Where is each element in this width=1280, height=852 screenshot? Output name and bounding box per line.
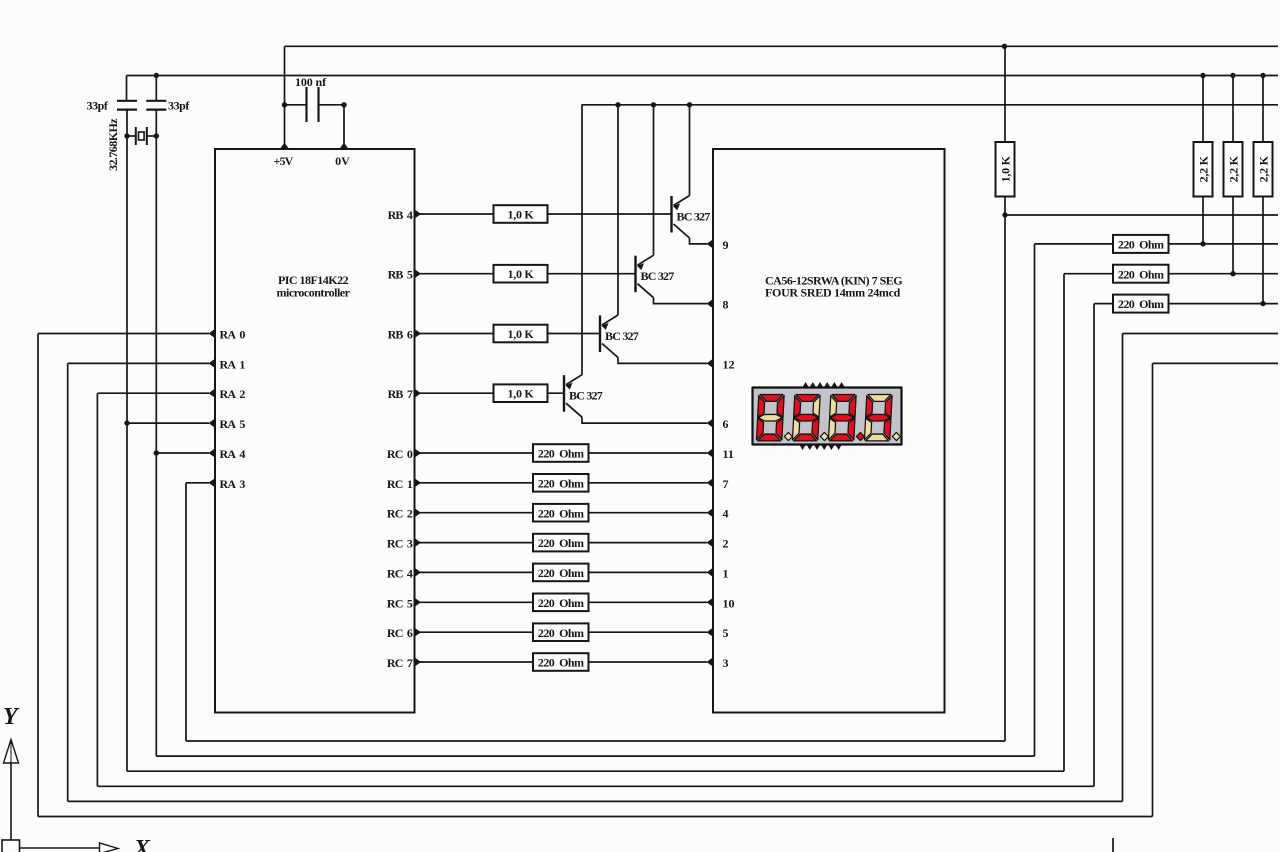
wire left vertical x=186.0 (185, 483, 187, 741)
wire R2 to Q2 base (548, 273, 636, 275)
wire row4 to right edge (1123, 333, 1279, 335)
svg-text:10: 10 (723, 596, 735, 610)
capacitor C1 33pf (117, 101, 137, 110)
svg-text:8: 8 (723, 298, 729, 312)
capacitor C3 100nf (285, 87, 345, 122)
transistor Q1 BC 327 (672, 196, 690, 239)
pin 2 (707, 538, 714, 547)
svg-text:4: 4 (723, 507, 729, 521)
svg-text:RA 1: RA 1 (220, 357, 246, 371)
svg-text:220 Ohm: 220 Ohm (1118, 297, 1164, 311)
wire Q3 collector to display (618, 358, 707, 364)
svg-text:11: 11 (723, 447, 734, 461)
svg-text:220 Ohm: 220 Ohm (538, 656, 584, 670)
wire row5 to right edge (1153, 362, 1279, 364)
wire bottom bus y=801.4 (68, 800, 1123, 802)
resistor R8 220 Ohm (533, 504, 589, 522)
svg-text:2: 2 (723, 537, 729, 551)
pin 4 (707, 508, 714, 517)
svg-text:RA 4: RA 4 (220, 447, 246, 461)
node axis marker Y (3, 704, 20, 840)
wire R8 to display (589, 512, 708, 514)
wire right vertical x=1122.5 (1122, 334, 1124, 802)
wire R16 to right edge (1169, 303, 1279, 305)
wire R13 to display (589, 661, 708, 663)
resistor R4 1,0 K (494, 384, 548, 402)
pin RC 2 (415, 508, 422, 517)
wire RC2 to R8 (415, 512, 534, 514)
pin 11 (707, 448, 714, 457)
junction R17 bottom (1200, 241, 1205, 246)
transistor Q2 BC 327 (636, 255, 654, 298)
junction Q3 emitter rail (615, 102, 620, 107)
wire emitter rail (582, 104, 1279, 106)
wire 0V drop (343, 105, 345, 149)
junction RA5 crystal line (124, 420, 129, 425)
svg-text:33pf: 33pf (168, 99, 190, 113)
junction R18 rail2 (1230, 73, 1235, 78)
wire left vertical x=97.4 (96, 393, 98, 786)
junction X1 right (154, 133, 159, 138)
svg-text:RB 5: RB 5 (388, 268, 413, 282)
resistor R11 220 Ohm (533, 594, 589, 612)
node DS1 7-segment display graphic (753, 382, 902, 450)
svg-text:1,0 K: 1,0 K (998, 155, 1012, 182)
svg-text:RC 5: RC 5 (387, 596, 413, 610)
wire node row 215 (1005, 214, 1278, 216)
junction R5 bottom (1002, 212, 1007, 217)
resistor R6 220 Ohm (533, 444, 589, 462)
svg-text:X: X (133, 836, 151, 852)
wire R11 to display (589, 601, 708, 603)
wire left vertical RA5 (126, 423, 128, 771)
pin RA 2 (209, 389, 216, 398)
svg-text:RA 3: RA 3 (220, 477, 246, 491)
wire left vertical x=67.7 (67, 363, 69, 801)
svg-text:220 Ohm: 220 Ohm (538, 536, 584, 550)
svg-text:1: 1 (723, 566, 729, 580)
resistor R16 220 Ohm (1113, 295, 1169, 313)
wire to R16 (1094, 303, 1113, 305)
svg-text:1,0 K: 1,0 K (507, 267, 534, 281)
wire right vertical x=1064.0 (1063, 274, 1065, 772)
wire RB5 to R2 (415, 273, 494, 275)
svg-text:RC 1: RC 1 (387, 477, 413, 491)
svg-text:33pf: 33pf (87, 99, 109, 113)
svg-text:BC 327: BC 327 (641, 269, 675, 283)
svg-text:RC 6: RC 6 (387, 626, 413, 640)
pin RC 5 (415, 598, 422, 607)
svg-text:3: 3 (723, 656, 729, 670)
pin RB 4 (415, 209, 422, 218)
wire RA row 5 horizontal (68, 362, 209, 364)
svg-text:Y: Y (3, 704, 20, 730)
svg-text:220 Ohm: 220 Ohm (538, 476, 584, 490)
junction R18 bottom (1230, 271, 1235, 276)
svg-text:RB 7: RB 7 (388, 387, 413, 401)
resistor R13 220 Ohm (533, 653, 589, 671)
resistor R14 220 Ohm (1113, 235, 1169, 253)
wire RA row 7 horizontal (127, 422, 209, 424)
svg-text:2,2 K: 2,2 K (1196, 155, 1210, 182)
svg-text:RB 6: RB 6 (388, 328, 413, 342)
wire +5V rail top (285, 45, 1279, 47)
wire RC0 to R6 (415, 452, 534, 454)
junction C3 left (282, 102, 287, 107)
resistor R2 1,0 K (494, 265, 548, 283)
pin RC 6 (415, 628, 422, 637)
wire R18 bottom lead (1232, 197, 1234, 274)
wire R17 bottom lead (1202, 197, 1204, 244)
svg-text:0V: 0V (335, 154, 350, 168)
node axis marker X arrow (20, 836, 152, 852)
wire bottom tick (1112, 838, 1114, 852)
wire R15 to right edge (1169, 273, 1279, 275)
pin 3 (707, 657, 714, 666)
pin RB 7 (415, 389, 422, 398)
pin 8 (707, 299, 714, 308)
wire RC4 to R10 (415, 571, 534, 573)
junction R19 rail2 (1260, 73, 1265, 78)
wire C2 to RA4 (155, 110, 157, 453)
svg-text:FOUR SRED 14mm 24mcd: FOUR SRED 14mm 24mcd (765, 286, 901, 300)
wire right vertical x=1094.0 (1093, 304, 1095, 787)
svg-text:RC 7: RC 7 (387, 656, 413, 670)
resistor R3 1,0 K (494, 325, 548, 343)
wire RA row 6 horizontal (97, 392, 209, 394)
svg-text:2,2 K: 2,2 K (1256, 155, 1270, 182)
wire R9 to display (589, 542, 708, 544)
node axis marker origin box (2, 840, 20, 852)
wire to R14 (1035, 243, 1114, 245)
wire RC7 to R13 (415, 661, 534, 663)
resistor R1 1,0 K (494, 205, 548, 223)
wire R5 top lead (1004, 46, 1006, 142)
junction X1 left (124, 133, 129, 138)
op-amp U1 PIC 18F14K22 microcontroller box (215, 149, 415, 713)
capacitor C2 33pf (146, 101, 166, 110)
wire R5 bottom lead (1004, 197, 1006, 216)
pin RA 5 (209, 419, 216, 428)
pin 7 (707, 478, 714, 487)
svg-text:220 Ohm: 220 Ohm (1118, 238, 1164, 252)
svg-text:1,0 K: 1,0 K (507, 327, 534, 341)
wire +5V drop (284, 46, 286, 149)
junction C2 rail2 (154, 73, 159, 78)
pin RA 0 (209, 329, 216, 338)
junction Q2 emitter rail (651, 102, 656, 107)
pin 12 (707, 359, 714, 368)
svg-text:RA 5: RA 5 (220, 417, 246, 431)
wire R12 to display (589, 631, 708, 633)
resistor R19 2,2 K vertical (1254, 142, 1273, 197)
svg-text:BC 327: BC 327 (569, 389, 603, 403)
wire C1 top lead (126, 76, 128, 101)
transistor Q3 BC 327 (600, 315, 618, 358)
wire bottom bus y=741.0 (186, 740, 1005, 742)
wire R4 to Q4 base (548, 392, 565, 394)
junction C3 right (341, 102, 346, 107)
pin 1 (707, 568, 714, 577)
svg-text:1,0 K: 1,0 K (507, 208, 534, 222)
op-amp DS1 CA56-12SRWA 7-segment display box (713, 149, 945, 713)
wire right vertical x=1034.5 (1034, 244, 1036, 756)
svg-text:RB 4: RB 4 (388, 208, 413, 222)
svg-text:9: 9 (723, 238, 729, 252)
wire R19 top lead (1262, 76, 1264, 143)
svg-text:6: 6 (723, 417, 729, 431)
pin RB 6 (415, 329, 422, 338)
wire right vertical x=1005.0 (1004, 215, 1006, 741)
wire bottom bus y=816.5 (38, 816, 1153, 818)
wire RC6 to R12 (415, 631, 534, 633)
wire R7 to display (589, 482, 708, 484)
wire RB6 to R3 (415, 333, 494, 335)
pin +5V (280, 143, 289, 150)
wire to R15 (1064, 273, 1113, 275)
junction R5 +5V rail (1002, 44, 1007, 49)
wire Q3 emitter (617, 105, 619, 315)
wire RC5 to R11 (415, 601, 534, 603)
transistor Q4 BC 327 (564, 375, 582, 418)
svg-text:220 Ohm: 220 Ohm (538, 506, 584, 520)
svg-text:RC 2: RC 2 (387, 507, 413, 521)
wire R3 to Q3 base (548, 333, 601, 335)
junction R19 bottom (1260, 301, 1265, 306)
wire C1 to RA5 (126, 110, 128, 424)
wire Q4 emitter (581, 105, 583, 375)
svg-text:2,2 K: 2,2 K (1226, 155, 1240, 182)
pin 10 (707, 598, 714, 607)
wire R19 bottom lead (1262, 197, 1264, 304)
wire bottom bus y=756.1 (156, 755, 1034, 757)
resistor R15 220 Ohm (1113, 265, 1169, 283)
resistor R10 220 Ohm (533, 564, 589, 582)
resistor R5 1,0 K vertical (996, 142, 1015, 197)
wire R17 top lead (1202, 76, 1204, 143)
wire rail2 (crystal/2,2K net) (127, 75, 1279, 77)
pin RC 0 (415, 448, 422, 457)
wire C2 top lead (155, 76, 157, 101)
resistor R12 220 Ohm (533, 623, 589, 641)
pin RC 7 (415, 657, 422, 666)
pin RC 3 (415, 538, 422, 547)
svg-text:220 Ohm: 220 Ohm (538, 626, 584, 640)
resistor R17 2,2 K vertical (1194, 142, 1213, 197)
svg-text:RC 0: RC 0 (387, 447, 413, 461)
svg-text:RA 0: RA 0 (220, 328, 246, 342)
svg-text:BC 327: BC 327 (677, 210, 711, 224)
crystal X1 32.768KHz (127, 127, 156, 145)
svg-text:220 Ohm: 220 Ohm (1118, 267, 1164, 281)
resistor R9 220 Ohm (533, 534, 589, 552)
pin RA 1 (209, 359, 216, 368)
wire R14 to right edge (1169, 243, 1279, 245)
wire RC3 to R9 (415, 542, 534, 544)
wire RA row 8 horizontal (156, 452, 209, 454)
wire R10 to display (589, 571, 708, 573)
junction R17 rail2 (1200, 73, 1205, 78)
svg-text:1,0 K: 1,0 K (507, 387, 534, 401)
junction Q1 emitter rail (687, 102, 692, 107)
wire Q1 collector to display (690, 238, 708, 244)
svg-text:220 Ohm: 220 Ohm (538, 566, 584, 580)
wire left vertical RA4 (155, 453, 157, 756)
svg-text:32.768KHz: 32.768KHz (106, 118, 120, 171)
pin 6 (707, 419, 714, 428)
svg-text:microcontroller: microcontroller (277, 286, 351, 300)
wire R6 to display (589, 452, 708, 454)
svg-text:5: 5 (723, 626, 729, 640)
svg-text:220 Ohm: 220 Ohm (538, 447, 584, 461)
wire right vertical x=1152.5 (1152, 363, 1154, 816)
wire R18 top lead (1232, 76, 1234, 143)
svg-text:RC 3: RC 3 (387, 537, 413, 551)
pin RC 1 (415, 478, 422, 487)
resistor R18 2,2 K vertical (1224, 142, 1243, 197)
resistor R7 220 Ohm (533, 474, 589, 492)
pin 5 (707, 628, 714, 637)
svg-text:+5V: +5V (273, 154, 293, 168)
wire left vertical x=38.0 (37, 334, 39, 817)
wire Q2 collector to display (654, 298, 708, 304)
wire RA row 9 horizontal (186, 482, 209, 484)
wire RC1 to R7 (415, 482, 534, 484)
wire bottom bus y=786.3 (97, 785, 1094, 787)
svg-text:7: 7 (723, 477, 729, 491)
svg-text:220 Ohm: 220 Ohm (538, 596, 584, 610)
wire RA row 4 horizontal (38, 333, 209, 335)
pin 0V (339, 143, 348, 150)
pin RB 5 (415, 269, 422, 278)
svg-text:12: 12 (723, 357, 735, 371)
svg-text:RC 4: RC 4 (387, 566, 413, 580)
wire RB7 to R4 (415, 392, 494, 394)
junction RA4 crystal line (154, 450, 159, 455)
wire Q2 emitter (653, 105, 655, 255)
wire Q1 emitter (689, 105, 691, 196)
svg-text:RA 2: RA 2 (220, 387, 246, 401)
wire R1 to Q1 base (548, 213, 672, 215)
pin 9 (707, 239, 714, 248)
wire bottom bus y=771.2 (127, 770, 1064, 772)
wire RB4 to R1 (415, 213, 494, 215)
svg-text:BC 327: BC 327 (605, 329, 639, 343)
wire Q4 collector to display (582, 417, 707, 423)
pin RA 3 (209, 478, 216, 487)
svg-text:100 nf: 100 nf (295, 75, 327, 89)
pin RA 4 (209, 448, 216, 457)
pin RC 4 (415, 568, 422, 577)
